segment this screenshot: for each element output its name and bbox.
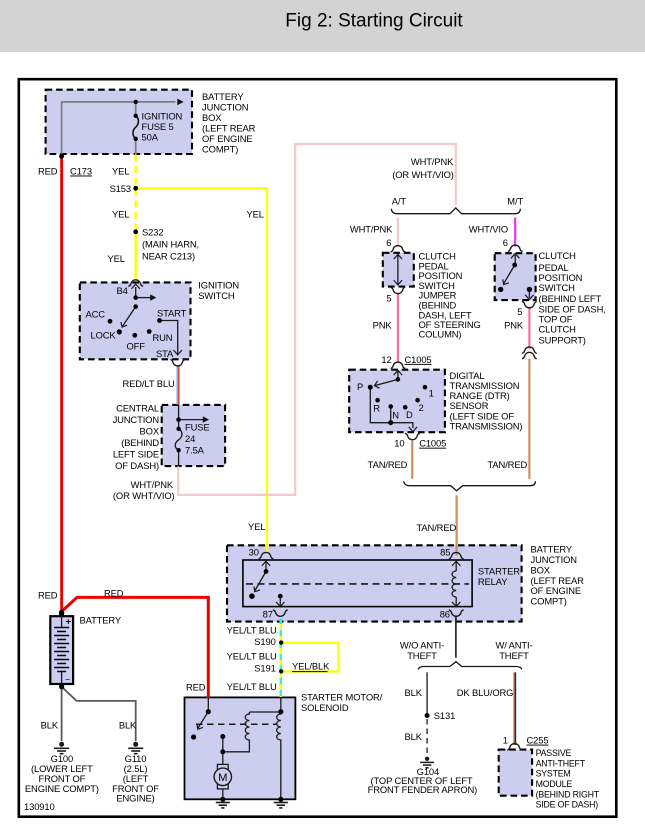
svg-text:JUNCTION: JUNCTION <box>531 554 577 565</box>
svg-text:YEL: YEL <box>108 253 125 264</box>
svg-text:2: 2 <box>419 402 424 413</box>
svg-text:TRANSMISSION): TRANSMISSION) <box>450 420 523 431</box>
svg-text:YEL/LT BLU: YEL/LT BLU <box>227 681 277 692</box>
svg-text:COLUMN): COLUMN) <box>419 329 462 340</box>
svg-text:TAN/RED: TAN/RED <box>368 459 408 470</box>
svg-text:C1005: C1005 <box>405 354 432 365</box>
svg-text:YEL: YEL <box>112 166 129 177</box>
svg-text:7.5A: 7.5A <box>185 445 205 456</box>
svg-text:RED: RED <box>38 589 58 600</box>
svg-text:C1005: C1005 <box>419 438 446 449</box>
svg-text:R: R <box>373 403 380 414</box>
svg-text:IGNITION: IGNITION <box>142 111 183 122</box>
svg-text:RUN: RUN <box>153 332 173 343</box>
svg-text:BATTERY: BATTERY <box>202 91 244 102</box>
svg-text:CLUTCH: CLUTCH <box>539 250 576 261</box>
svg-text:WHT/PNK: WHT/PNK <box>350 224 393 235</box>
svg-text:ANTI-THEFT: ANTI-THEFT <box>536 758 586 768</box>
svg-text:RED: RED <box>104 588 124 599</box>
svg-text:B4: B4 <box>117 285 128 296</box>
svg-text:5: 5 <box>386 292 391 303</box>
svg-text:PNK: PNK <box>373 319 393 330</box>
svg-text:(MAIN HARN,: (MAIN HARN, <box>142 239 199 250</box>
svg-text:JUNCTION: JUNCTION <box>202 102 248 113</box>
svg-text:BLK: BLK <box>405 687 423 698</box>
svg-text:ENGINE): ENGINE) <box>116 793 154 804</box>
svg-text:BLK: BLK <box>41 720 59 731</box>
svg-text:BLK: BLK <box>119 720 137 731</box>
svg-text:STARTER: STARTER <box>478 565 520 576</box>
svg-text:Fig 2: Starting Circuit: Fig 2: Starting Circuit <box>285 11 463 32</box>
svg-text:WHT/PNK: WHT/PNK <box>411 156 454 167</box>
svg-text:1: 1 <box>503 735 508 746</box>
svg-text:OFF: OFF <box>127 341 146 352</box>
svg-text:YEL/BLK: YEL/BLK <box>292 661 330 672</box>
svg-text:COMPT): COMPT) <box>202 144 238 155</box>
svg-text:S190: S190 <box>254 636 275 647</box>
svg-text:YEL: YEL <box>248 521 265 532</box>
svg-text:6: 6 <box>386 237 391 248</box>
svg-text:87: 87 <box>263 609 273 620</box>
svg-text:FUSE 5: FUSE 5 <box>142 121 174 132</box>
svg-text:OF DASH): OF DASH) <box>115 460 159 471</box>
svg-text:M/T: M/T <box>507 195 523 206</box>
svg-text:SIDE OF DASH): SIDE OF DASH) <box>536 800 599 810</box>
svg-text:YEL/LT BLU: YEL/LT BLU <box>227 651 277 662</box>
svg-text:RED: RED <box>186 682 206 693</box>
svg-text:6: 6 <box>503 237 508 248</box>
svg-text:STA: STA <box>156 348 174 359</box>
svg-text:BLK: BLK <box>405 731 423 742</box>
svg-text:THEFT: THEFT <box>499 650 529 661</box>
svg-text:OF ENGINE: OF ENGINE <box>202 133 253 144</box>
svg-text:FUSE: FUSE <box>185 422 210 433</box>
svg-text:A/T: A/T <box>392 195 407 206</box>
svg-text:ACC: ACC <box>86 309 106 320</box>
svg-text:(LEFT REAR: (LEFT REAR <box>531 575 585 586</box>
svg-text:(BEHIND: (BEHIND <box>121 437 159 448</box>
svg-text:+: + <box>66 617 72 628</box>
svg-text:YEL/LT BLU: YEL/LT BLU <box>227 625 277 636</box>
svg-text:50A: 50A <box>142 132 159 143</box>
svg-text:YEL: YEL <box>112 209 129 220</box>
svg-text:D: D <box>406 409 413 420</box>
svg-text:YEL: YEL <box>247 209 264 220</box>
svg-text:M: M <box>218 772 227 784</box>
svg-text:P: P <box>357 381 363 392</box>
svg-text:WHT/VIO: WHT/VIO <box>469 224 508 235</box>
svg-text:1: 1 <box>429 387 434 398</box>
svg-text:30: 30 <box>249 546 259 557</box>
svg-text:FRONT FENDER APRON): FRONT FENDER APRON) <box>368 784 478 795</box>
svg-text:SWITCH: SWITCH <box>198 290 234 301</box>
svg-text:JUNCTION: JUNCTION <box>113 414 159 425</box>
svg-text:LOCK: LOCK <box>91 330 117 341</box>
svg-text:BATTERY: BATTERY <box>531 544 573 555</box>
svg-text:BOX: BOX <box>140 426 160 437</box>
svg-text:STARTER MOTOR/: STARTER MOTOR/ <box>301 692 383 703</box>
svg-text:COMPT): COMPT) <box>531 596 567 607</box>
svg-text:C173: C173 <box>70 166 92 177</box>
svg-text:85: 85 <box>440 546 450 557</box>
svg-text:RED: RED <box>38 166 58 177</box>
svg-text:LEFT SIDE: LEFT SIDE <box>113 449 159 460</box>
svg-text:BATTERY: BATTERY <box>80 615 122 626</box>
svg-text:C255: C255 <box>527 735 549 746</box>
svg-text:DK BLU/ORG: DK BLU/ORG <box>457 687 514 698</box>
svg-text:S232: S232 <box>142 227 163 238</box>
svg-text:PASSIVE: PASSIVE <box>536 748 572 758</box>
svg-text:TAN/RED: TAN/RED <box>488 459 528 470</box>
svg-text:10: 10 <box>394 438 404 449</box>
svg-text:WHT/PNK: WHT/PNK <box>131 479 174 490</box>
svg-text:(BEHIND RIGHT: (BEHIND RIGHT <box>536 789 600 799</box>
svg-text:BOX: BOX <box>531 564 551 575</box>
svg-text:130910: 130910 <box>24 801 55 812</box>
svg-text:12: 12 <box>381 354 391 365</box>
svg-text:24: 24 <box>185 433 195 444</box>
svg-text:S131: S131 <box>434 710 455 721</box>
svg-text:(BEHIND LEFT: (BEHIND LEFT <box>539 293 602 304</box>
svg-text:(OR WHT/VIO): (OR WHT/VIO) <box>113 490 175 501</box>
svg-text:SWITCH: SWITCH <box>539 282 575 293</box>
svg-text:ENGINE COMPT): ENGINE COMPT) <box>25 783 99 794</box>
svg-text:BOX: BOX <box>202 112 222 123</box>
svg-text:RELAY: RELAY <box>478 576 508 587</box>
svg-text:SOLENOID: SOLENOID <box>301 702 349 713</box>
svg-text:S191: S191 <box>254 662 275 673</box>
svg-text:RED/LT BLU: RED/LT BLU <box>123 378 175 389</box>
svg-text:NEAR C213): NEAR C213) <box>142 251 195 262</box>
svg-text:OF ENGINE: OF ENGINE <box>531 585 582 596</box>
svg-text:(LEFT REAR: (LEFT REAR <box>202 123 256 134</box>
svg-text:PNK: PNK <box>504 320 524 331</box>
svg-text:CLUTCH: CLUTCH <box>539 324 576 335</box>
svg-text:CENTRAL: CENTRAL <box>116 403 159 414</box>
svg-text:S153: S153 <box>110 183 131 194</box>
svg-text:TAN/RED: TAN/RED <box>417 522 457 533</box>
svg-text:MODULE: MODULE <box>536 779 573 789</box>
svg-text:SYSTEM: SYSTEM <box>536 769 571 779</box>
svg-text:(OR WHT/VIO): (OR WHT/VIO) <box>392 169 454 180</box>
svg-text:START: START <box>157 308 187 319</box>
svg-text:THEFT: THEFT <box>407 650 437 661</box>
svg-text:5: 5 <box>517 306 522 317</box>
svg-text:−: − <box>65 675 70 685</box>
svg-text:86: 86 <box>440 609 450 620</box>
svg-text:IGNITION: IGNITION <box>198 280 239 291</box>
svg-text:N: N <box>392 410 399 421</box>
svg-text:SUPPORT): SUPPORT) <box>539 335 586 346</box>
